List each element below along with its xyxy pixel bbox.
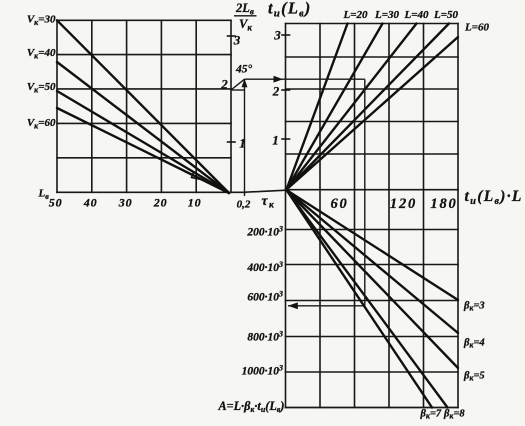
bottom chart bottom edge [286,407,459,409]
svg-text:45°: 45° [235,64,253,76]
svg-text:L=30: L=30 [374,9,399,21]
svg-text:1000·103: 1000·103 [242,364,283,378]
svg-text:βк=7: βк=7 [420,409,442,421]
svg-text:Vк=50: Vк=50 [27,81,56,95]
svg-text:30: 30 [118,196,133,210]
example vertical at 0,2 [244,79,246,196]
svg-text:0,2: 0,2 [237,199,251,211]
line βк=7 [287,190,433,408]
axis extension to origin [246,190,286,192]
open arrowhead on Vк=50 line [192,172,209,181]
svg-text:L=50: L=50 [433,9,458,21]
svg-text:1: 1 [239,136,246,151]
svg-text:400·103: 400·103 [246,260,283,274]
example vertical trace down to bottom chart [364,79,366,306]
svg-text:2: 2 [272,84,280,99]
svg-text:βк=4: βк=4 [463,338,485,350]
line L=30 [287,24,383,190]
line Vк=50 [57,91,229,193]
shared horizontal axis tи(Lв)·L [286,189,459,191]
svg-text:180: 180 [430,196,457,212]
line βк=3 [287,190,459,300]
svg-text:120: 120 [390,196,417,212]
bottom chart grid verticals [286,190,459,408]
svg-text:60: 60 [330,196,348,212]
svg-text:1: 1 [272,133,279,148]
45° construction base [231,89,245,91]
svg-text:50: 50 [49,196,63,210]
right top chart grid verticals [286,24,459,190]
line L=60 [287,37,459,190]
line Vк=30 [57,20,229,193]
left chart right edge / 2Lв-Vк axis [230,20,232,192]
tи axis tick 2 [282,89,290,91]
svg-text:40: 40 [83,196,98,210]
example horizontal trace to A axis [288,305,365,307]
line βк=4 [287,190,459,333]
svg-text:βк=8: βк=8 [443,409,465,421]
svg-text:800·103: 800·103 [247,330,283,344]
line βк=8 [287,190,448,408]
tи axis tick 1 [282,138,290,140]
fraction bar [234,15,257,17]
left arrowhead on A trace [288,302,298,309]
left chart bottom axis Lв [57,191,246,193]
example horizontal trace to right chart [245,78,365,80]
line Vк=60 [57,108,229,193]
svg-text:200·103: 200·103 [246,225,283,239]
tick 3 on middle axis [228,35,236,37]
svg-text:20: 20 [153,196,168,210]
line L=50 [287,24,450,190]
svg-text:βк=5: βк=5 [463,371,485,383]
tick 1 on middle axis [228,141,236,143]
svg-text:βк=3: βк=3 [463,301,485,313]
left chart grid verticals [57,20,196,192]
svg-text:2: 2 [220,77,228,92]
line Vк=40 [57,62,229,193]
svg-text:3: 3 [233,33,241,48]
tи axis tick 3 [282,34,290,36]
left chart grid horizontals [57,20,231,158]
line βк=5 [287,190,459,368]
svg-text:600·103: 600·103 [247,290,283,304]
line L=20 [287,24,348,190]
svg-text:L=60: L=60 [464,22,489,34]
svg-text:L=40: L=40 [404,9,429,21]
up arrowhead on 0,2 vertical [242,79,248,87]
svg-text:Vк=40: Vк=40 [27,47,56,61]
svg-text:3: 3 [273,28,281,43]
line L=40 [287,24,417,190]
svg-text:10: 10 [188,196,202,210]
bottom chart grid horizontals A scale [286,230,459,373]
right arrowhead on horizontal trace [274,76,284,83]
45° construction hypotenuse [231,79,245,90]
svg-text:L=20: L=20 [343,9,368,21]
svg-text:Vк=60: Vк=60 [27,117,56,131]
right top chart grid horizontals [286,24,459,155]
svg-text:Vк=30: Vк=30 [27,14,56,28]
